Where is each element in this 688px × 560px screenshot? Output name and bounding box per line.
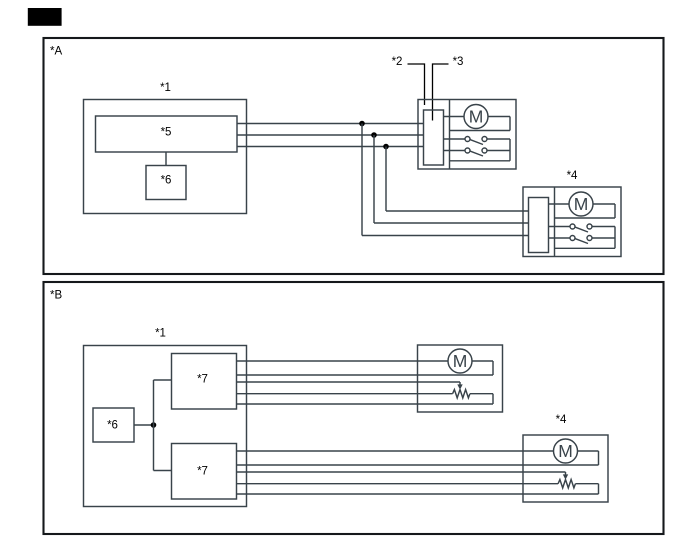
wire lower pot high lead: [237, 483, 559, 485]
ECU assembly box *1 (panel A): [84, 100, 247, 214]
svg-text:*5: *5: [161, 127, 172, 139]
motor-sensor unit *4 (panel B) potentiometer resistor zigzag: [558, 480, 575, 488]
wire branch bus3 horizontal to *4: [386, 210, 529, 212]
motor-switch unit *2/*3 connector tall rectangle: [424, 110, 444, 165]
svg-text:*3: *3: [453, 56, 464, 68]
junction dot (panel B): [151, 422, 157, 428]
motor-switch unit *2/*3 switch row 1 left contact: [465, 137, 470, 142]
wire *6 to junction: [134, 424, 154, 426]
svg-text:M: M: [574, 194, 589, 214]
motor-switch unit *2/*3 switch row 1 right contact: [482, 137, 487, 142]
wire *5 to *6: [165, 152, 167, 166]
motor-sensor unit upper potentiometer wiper arrowhead: [457, 384, 462, 389]
motor-sensor unit *4 (panel B) wire motor return vertical: [598, 451, 600, 465]
motor-switch unit *4 (panel A) switch row 1 right contact: [587, 224, 592, 229]
motor-switch unit *4 (panel A) wire motor return horizontal: [555, 217, 616, 219]
motor-switch unit *2/*3 wire connector to switch row 1: [444, 138, 466, 140]
motor-switch unit *4 (panel A) internal divider line: [554, 187, 556, 257]
junction dot on bus 1: [359, 121, 365, 127]
svg-text:*1: *1: [155, 328, 166, 340]
motor-sensor unit upper motor M circle: [448, 349, 472, 373]
driver box *7 upper: [172, 354, 237, 410]
wire upper pot low return: [237, 403, 494, 405]
wire bus 2 from *5 to connector *2: [237, 134, 424, 136]
junction dot on bus 3: [383, 144, 389, 150]
wire branch bus1 vertical drop: [361, 124, 363, 236]
wire lower pot wiper: [237, 471, 566, 473]
svg-text:*4: *4: [567, 170, 578, 182]
wire bus 3 from *5 to connector *2: [237, 146, 424, 148]
motor-switch unit *2/*3 wire switch row 2 right lead: [487, 150, 510, 152]
motor-sensor unit *4 (panel B) potentiometer wiper arrowhead: [563, 474, 568, 479]
motor-switch unit *4 (panel A) switch row 2 blade: [575, 239, 588, 244]
svg-text:M: M: [558, 441, 573, 461]
motor-sensor unit *4 (panel B) wire resistor right lead: [575, 483, 598, 485]
wire branch bus3 vertical drop: [385, 147, 387, 212]
motor-sensor unit *4 (panel B) housing box: [523, 435, 608, 502]
motor-switch unit *4 (panel A) wire switch common vertical: [614, 227, 616, 249]
wire upper motor feed: [237, 360, 449, 362]
sub module box *6 (panel A): [146, 166, 186, 200]
motor-sensor unit upper housing box: [418, 345, 503, 412]
wire lower motor return: [237, 464, 599, 466]
motor-switch unit *4 (panel A) switch row 2 right contact: [587, 236, 592, 241]
motor-switch unit *2/*3 wire motor return horizontal: [450, 130, 511, 132]
wire trunk to lower *7: [154, 470, 172, 472]
motor-switch unit *2/*3 wire connector to motor: [444, 116, 465, 118]
motor-switch unit *4 (panel A) wire connector to motor: [549, 203, 570, 205]
motor-switch unit *2/*3 motor M circle: [464, 105, 488, 129]
motor-sensor unit upper potentiometer resistor zigzag: [453, 390, 470, 398]
motor-sensor unit *4 (panel B) potentiometer wiper arrow stem: [565, 472, 567, 475]
motor-sensor unit upper wire motor right lead: [472, 360, 493, 362]
svg-text:*6: *6: [161, 175, 172, 187]
motor-switch unit *4 (panel A) wire connector to switch row 1: [549, 226, 571, 228]
leader line for *3: [433, 64, 449, 121]
motor-switch unit *4 (panel A) wire switch common return horizontal: [555, 247, 616, 249]
svg-text:*7: *7: [197, 466, 208, 478]
svg-text:*A: *A: [50, 46, 62, 58]
wire upper pot high lead: [237, 393, 453, 395]
motor-switch unit *2/*3 wire motor right lead: [488, 116, 510, 118]
motor-sensor unit upper potentiometer wiper arrow stem: [459, 382, 461, 385]
wire branch bus2 horizontal to *4: [374, 222, 529, 224]
motor-switch unit *2/*3 outer housing box: [418, 100, 516, 170]
motor-switch unit *2/*3 wire connector to switch row 2: [444, 150, 466, 152]
motor-switch unit *2/*3 internal divider line: [449, 100, 451, 170]
wire bus 1 from *5 to connector *2: [237, 123, 424, 125]
motor-switch unit *4 (panel A) wire motor return vertical: [614, 204, 616, 218]
motor-sensor unit *4 (panel B) wire resistor return vertical: [598, 484, 600, 494]
motor-switch unit *4 (panel A) switch row 2 left contact: [570, 236, 575, 241]
svg-text:*4: *4: [556, 414, 567, 426]
svg-text:M: M: [453, 351, 468, 371]
motor-sensor unit upper wire motor return vertical: [492, 361, 494, 375]
wire lower pot low return: [237, 493, 599, 495]
svg-text:*1: *1: [160, 82, 171, 94]
motor-sensor unit upper wire resistor return vertical: [492, 394, 494, 404]
motor-switch unit *4 (panel A) wire connector to switch row 2: [549, 237, 571, 239]
svg-text:*2: *2: [392, 56, 403, 68]
sub module box *6 (panel B): [93, 408, 134, 442]
svg-text:M: M: [469, 107, 484, 127]
wire upper motor return: [237, 374, 494, 376]
motor-sensor unit upper wire resistor right lead: [470, 393, 493, 395]
motor-switch unit *4 (panel A) wire motor right lead: [593, 203, 615, 205]
motor-switch unit *4 (panel A) motor M circle: [569, 192, 593, 216]
motor-switch unit *2/*3 wire switch common return horizontal: [450, 160, 511, 162]
motor-switch unit *2/*3 switch row 2 right contact: [482, 148, 487, 153]
ECU assembly box *1 (panel B): [84, 346, 247, 507]
motor-switch unit *4 (panel A) wire switch row 2 right lead: [592, 237, 615, 239]
svg-text:*6: *6: [107, 420, 118, 432]
wire junction vertical trunk: [153, 380, 155, 471]
motor-switch unit *2/*3 switch row 2 blade: [470, 151, 483, 156]
motor-switch unit *4 (panel A) switch row 1 left contact: [570, 224, 575, 229]
wire lower motor feed: [237, 450, 554, 452]
motor-switch unit *4 (panel A) outer housing box: [523, 187, 621, 257]
svg-text:*B: *B: [50, 290, 62, 302]
motor-switch unit *2/*3 wire switch row 1 right lead: [487, 138, 510, 140]
motor-switch unit *4 (panel A) connector tall rectangle: [529, 198, 549, 253]
svg-text:*7: *7: [197, 374, 208, 386]
motor-sensor unit *4 (panel B) wire motor right lead: [578, 450, 599, 452]
motor-sensor unit *4 (panel B) motor M circle: [554, 439, 578, 463]
panel A frame: [44, 38, 664, 274]
wire upper pot wiper: [237, 381, 461, 383]
motor-switch unit *2/*3 switch row 1 blade: [470, 140, 483, 145]
motor-switch unit *4 (panel A) wire switch row 1 right lead: [592, 226, 615, 228]
driver box *7 lower: [172, 444, 237, 500]
wire branch bus1 horizontal to *4: [362, 235, 529, 237]
wire branch bus2 vertical drop: [373, 135, 375, 223]
wire trunk to upper *7: [154, 379, 172, 381]
motor-switch unit *2/*3 switch row 2 left contact: [465, 148, 470, 153]
control module box *5: [96, 116, 238, 152]
leader line for *2: [408, 64, 425, 105]
panel B frame: [44, 282, 664, 534]
motor-switch unit *2/*3 wire switch common vertical: [509, 139, 511, 161]
motor-switch unit *4 (panel A) switch row 1 blade: [575, 227, 588, 232]
motor-switch unit *2/*3 wire motor return vertical: [509, 117, 511, 131]
corner marker block: [28, 8, 62, 26]
junction dot on bus 2: [371, 132, 377, 138]
